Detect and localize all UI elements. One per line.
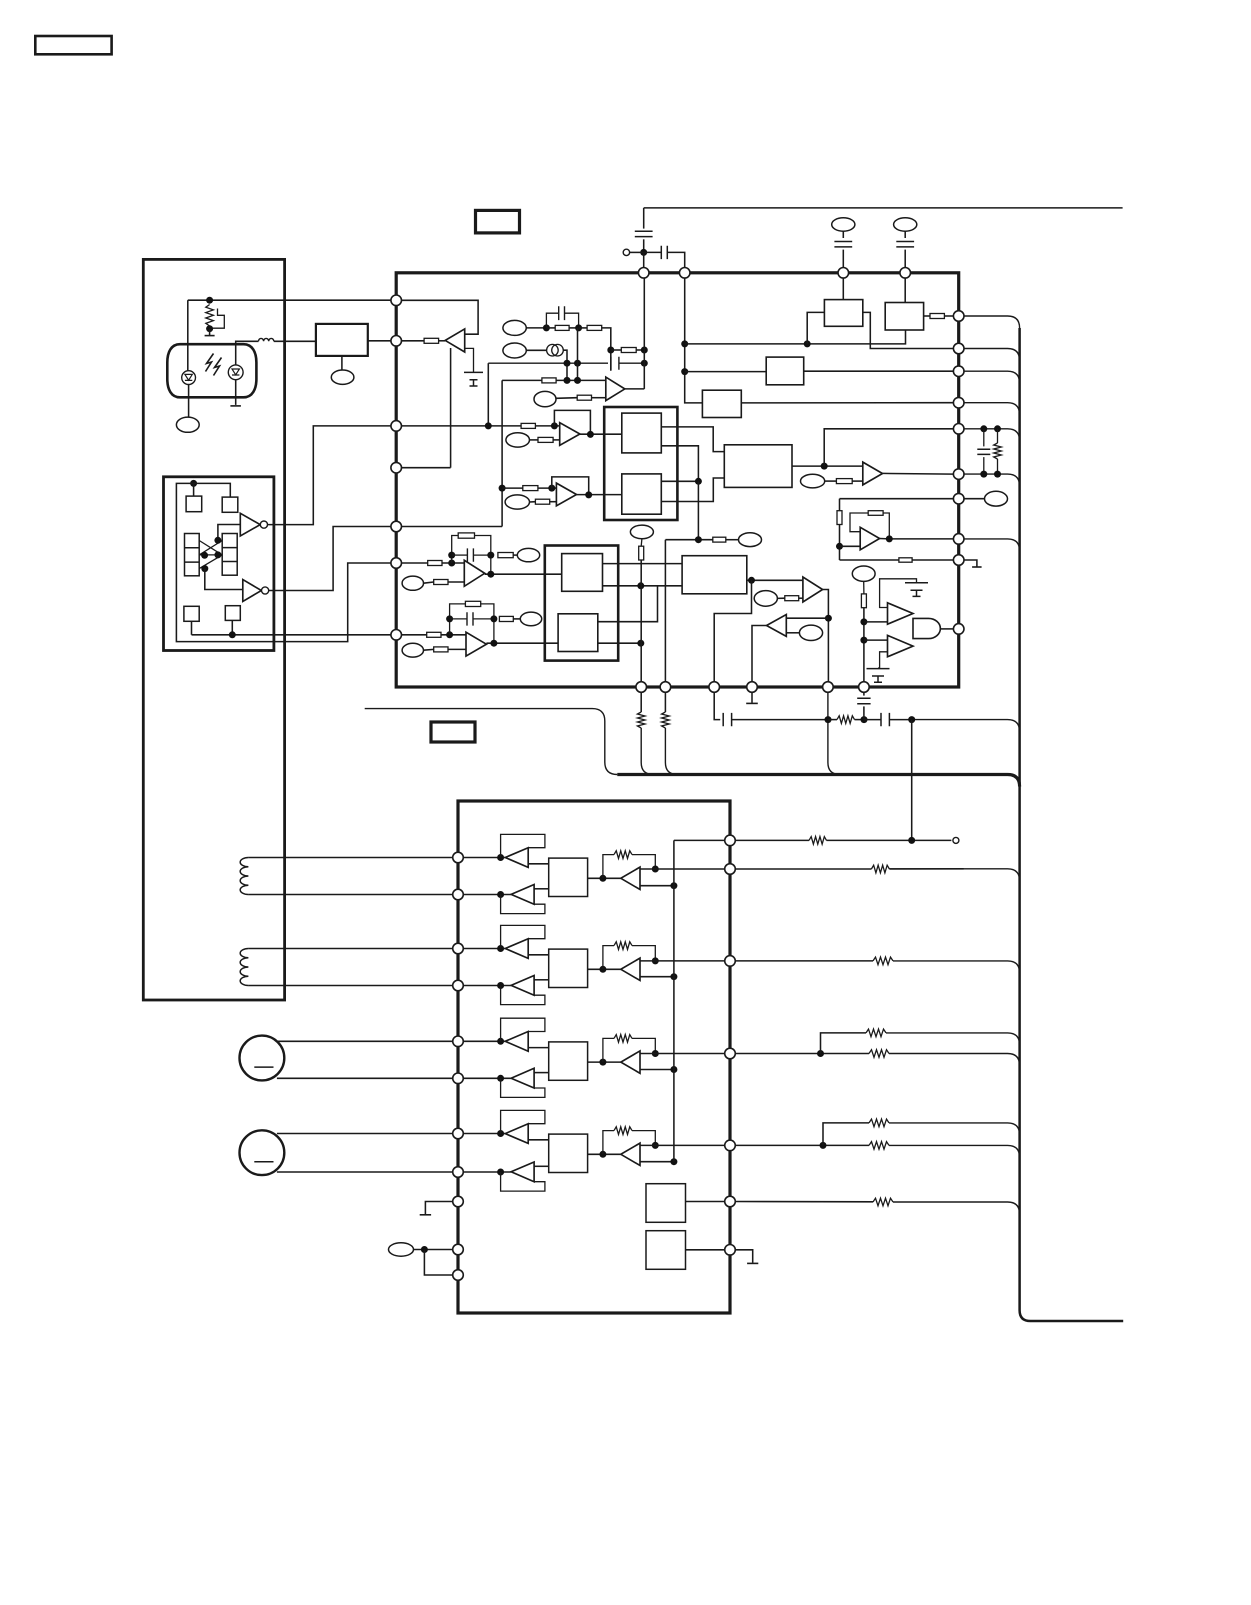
crossing wire d <box>199 554 218 556</box>
buffer spindle B2 <box>511 1068 534 1088</box>
wire col644 <box>643 278 645 389</box>
wire sled B2 out <box>534 1165 549 1167</box>
wire ref ext <box>735 839 809 841</box>
resistor R303 <box>873 957 893 965</box>
pin driver right 2 <box>725 864 736 875</box>
pin servo bottom 5 <box>823 682 834 693</box>
resistor R208 <box>538 437 553 442</box>
wire TRK out <box>747 579 803 581</box>
wire ch3 branch <box>821 1033 867 1054</box>
node tracking ref <box>670 973 677 980</box>
pad ellipse E14 <box>801 474 825 488</box>
op-amp U1a <box>445 329 465 352</box>
wire bus row p316 <box>964 316 1020 328</box>
wire Vref to pin <box>414 1249 454 1251</box>
wire focus out row <box>640 868 725 870</box>
node EQ out <box>821 463 828 470</box>
resistor R302 <box>871 865 889 873</box>
wire spindle B2 fb <box>501 1078 545 1097</box>
capacitor C201 <box>559 306 565 320</box>
wire C2 ref <box>878 652 888 668</box>
pin servo right 3 <box>953 366 964 377</box>
capacitor C201 loop right <box>565 313 579 328</box>
wire col864 <box>863 608 865 682</box>
wire spindle bridge out <box>588 1061 621 1063</box>
wire R215 out <box>513 554 517 556</box>
pin driver right 7 <box>725 1245 736 1256</box>
pin servo bottom 2 <box>660 682 671 693</box>
wire pin714 drop <box>714 692 720 720</box>
pin driver right 1 <box>725 835 736 846</box>
block driver OSC <box>646 1184 686 1223</box>
block DIV <box>702 390 741 417</box>
resistor R203 <box>587 325 602 330</box>
wire terminal <box>630 251 644 253</box>
op-amp I1 <box>464 560 484 586</box>
pin servo top 1 <box>638 268 649 279</box>
op-amp A7 <box>863 462 883 485</box>
capacitor C605 lead2 <box>983 457 985 474</box>
photodiode array box outline <box>164 477 274 651</box>
wire module bottom <box>341 356 343 370</box>
sled motor minus <box>254 1161 273 1163</box>
resistor R306 <box>869 1119 889 1127</box>
wire driver ref top <box>674 839 725 841</box>
pin servo left 2 <box>391 336 402 347</box>
wire pin467 interior <box>401 467 450 469</box>
resistor R613 <box>837 716 855 724</box>
laser beam arrow 2 <box>214 358 222 376</box>
node A3 in <box>551 422 558 429</box>
wire Vref branch <box>424 1250 453 1276</box>
capacitor C612 <box>881 713 889 726</box>
wire SH2 out a <box>598 586 658 622</box>
resistor R225 <box>868 511 883 516</box>
resistor R215 <box>498 553 513 558</box>
resistor R223 <box>785 596 799 601</box>
resistor R605 lead2 <box>997 459 999 474</box>
wire bus row drv osc <box>893 1202 1020 1214</box>
pin servo bottom 4 <box>747 682 758 693</box>
wire module to IC pin <box>368 340 392 342</box>
wire cap row <box>488 362 608 364</box>
sled motor M2 <box>240 1130 285 1175</box>
ground pin560 <box>964 560 977 567</box>
pad ellipse p499 <box>985 491 1008 506</box>
buffer tracking B1 <box>505 939 528 959</box>
wire EQ fb up <box>824 429 954 466</box>
wire A6 out <box>752 626 767 683</box>
wire LD anode drop <box>187 300 189 371</box>
node cross 3 <box>214 551 221 558</box>
crossing wire a <box>199 541 222 555</box>
wire PLL out <box>924 315 930 317</box>
resistor R204 <box>621 348 636 353</box>
wire focus in- <box>463 894 511 896</box>
node mix1 <box>607 347 614 354</box>
terminal ref test <box>953 837 959 843</box>
block SH2 <box>558 614 598 652</box>
buffer focus B1 <box>505 848 528 868</box>
wire focus coil + <box>248 857 453 859</box>
wire rings out <box>563 350 567 380</box>
wire tracking B2 out <box>534 979 549 981</box>
node sled in+ <box>497 1130 504 1137</box>
wire R201 right <box>439 340 446 342</box>
pin driver left 6 <box>453 1073 464 1084</box>
wire inductor to module <box>274 340 316 342</box>
wire E13 drop <box>640 539 643 547</box>
pin driver left 2 <box>453 889 464 900</box>
block HF2 <box>622 474 662 514</box>
wire U1a ref <box>465 348 474 372</box>
wire E5 out <box>530 501 536 503</box>
wire PD to inductor <box>236 341 259 365</box>
pad ellipse E7 <box>402 576 423 590</box>
node S4 junction <box>229 631 236 638</box>
wire bus row drv ch4a <box>889 1123 1020 1135</box>
node sled in- <box>497 1169 504 1176</box>
node col684 b <box>681 368 688 375</box>
wire TRK fb <box>714 580 751 682</box>
capacitor C603 <box>834 242 852 247</box>
pad ellipse E4 <box>506 433 530 447</box>
wire S1 stub <box>193 483 195 496</box>
wire pin526 interior <box>401 526 502 528</box>
node col644 a <box>641 347 648 354</box>
wire ch4 ext <box>735 1144 869 1146</box>
wire array top loop <box>176 483 391 641</box>
ground PD bar <box>230 405 241 407</box>
wire bus row servo rail <box>617 775 1019 787</box>
wire R208 out <box>553 439 560 441</box>
wire C603 to pin <box>842 250 844 268</box>
resistor R305 <box>869 1050 889 1058</box>
wire E9 out <box>424 648 434 651</box>
buffer sled B2 <box>511 1162 534 1182</box>
block HF1 <box>622 413 662 453</box>
wire R212 out <box>944 315 953 317</box>
resistor R611 <box>637 712 645 728</box>
node A4 in <box>548 485 555 492</box>
capacitor C605 <box>977 449 990 454</box>
wire col665 <box>664 540 666 682</box>
node spindle in+ <box>497 1038 504 1045</box>
node I1 cap r <box>487 552 494 559</box>
block tracking bridge <box>549 949 588 987</box>
pad ellipse E10 <box>754 591 777 607</box>
wire row343 <box>685 330 906 344</box>
pad ellipse E15 <box>852 566 875 581</box>
node col502 <box>499 485 506 492</box>
wire E1 out <box>526 327 546 329</box>
pin driver right 3 <box>725 956 736 967</box>
wire R210 out <box>550 501 557 503</box>
node cross 1 <box>214 537 221 544</box>
wire pin300 interior <box>401 300 478 334</box>
wire U1a fb drop <box>450 348 452 468</box>
wire M2 - <box>277 1171 453 1173</box>
wire C602 left <box>644 251 662 253</box>
power amp spindle <box>621 1051 640 1073</box>
node spindle ref <box>670 1066 677 1073</box>
wire rail feeder <box>365 709 618 775</box>
op-amp A6 <box>767 615 787 637</box>
wire focus ref in <box>640 885 674 887</box>
power amp sled <box>621 1143 640 1165</box>
ground R101 bar <box>205 335 215 337</box>
wire A4 fb <box>552 477 589 495</box>
pad ellipse E12 <box>739 533 762 547</box>
pin driver left 10 <box>453 1244 464 1255</box>
wire C604 to pin <box>904 250 906 268</box>
resistor R217 <box>427 632 441 637</box>
wire A6 in b <box>786 632 799 634</box>
wire LD cathode <box>188 385 190 418</box>
wire sled B1 fb <box>501 1110 545 1133</box>
wire A5 out <box>823 590 829 683</box>
pad ellipse E11 <box>799 625 822 640</box>
wire T2 output <box>269 527 392 591</box>
pin driver left 4 <box>453 980 464 991</box>
vref U1a <box>464 372 483 386</box>
pad ellipse filter2 <box>894 218 917 231</box>
pin servo right 2 <box>953 343 964 354</box>
bus vertical <box>1020 328 1124 1321</box>
segment S2 <box>222 497 238 512</box>
node HF junction <box>695 478 702 485</box>
wire tracking coil - <box>248 985 453 987</box>
wire focus B1 out <box>528 863 549 865</box>
wire rail drop <box>643 208 645 229</box>
pin servo bottom 6 <box>859 682 870 693</box>
resistor R308 <box>873 1198 893 1206</box>
wire ch4 branch <box>823 1123 869 1146</box>
wire focus B1 fb <box>501 834 545 857</box>
node spindle in- <box>497 1075 504 1082</box>
block spindle bridge <box>549 1042 588 1080</box>
op-amp A4 <box>556 483 576 506</box>
wire I1 fb left <box>452 536 459 564</box>
wire pin539 row <box>889 538 953 540</box>
wire pin635 row <box>401 634 466 636</box>
pad ellipse E9 <box>402 643 423 657</box>
wire spindle out row <box>640 1053 725 1055</box>
wire A6 in a <box>786 617 828 619</box>
wire I1 out <box>485 573 562 575</box>
pad ellipse E5 <box>505 495 529 509</box>
wire HF junction drop <box>697 481 699 539</box>
resistor spindle fb <box>614 1035 632 1043</box>
wire row539 <box>665 539 712 541</box>
inductor L101 <box>259 338 274 341</box>
resistor R301 <box>809 837 827 845</box>
wire I2 fb right <box>481 604 494 643</box>
resistor R207 <box>521 423 535 428</box>
wire filter2 <box>904 231 906 238</box>
wire spindle B1 fb <box>501 1018 545 1041</box>
wire A3 out <box>580 433 622 435</box>
resistor R101 body <box>206 305 214 327</box>
node E1 <box>543 324 550 331</box>
wire tracking B2 fb <box>501 986 545 1005</box>
wire sled B1 out <box>528 1139 549 1141</box>
node I2 cap l <box>446 615 453 622</box>
wire row488 <box>502 487 556 489</box>
resistor focus fb <box>614 851 632 859</box>
wire spindle B2 out <box>534 1072 549 1074</box>
resistor R307 <box>869 1142 889 1150</box>
node TRK out <box>748 577 755 584</box>
pad ellipse Vref drv <box>389 1243 414 1256</box>
wire E15 drop <box>863 581 865 593</box>
servo IC outline <box>396 273 959 687</box>
node I2 in <box>446 631 453 638</box>
capacitor C601 <box>635 231 653 236</box>
resistor R304 <box>866 1029 886 1037</box>
wire R201 left <box>401 340 424 342</box>
ground driver left <box>425 1202 453 1215</box>
wire sled out row <box>640 1144 725 1146</box>
node sled sum <box>599 1151 606 1158</box>
node array top <box>190 480 197 487</box>
pin driver left 8 <box>453 1167 464 1178</box>
capacitor C613 <box>857 698 870 703</box>
wire R216 out <box>448 581 464 583</box>
wire tracking in+ <box>463 948 505 950</box>
wire C613 to node <box>863 706 865 719</box>
op-amp A1 <box>606 377 625 401</box>
wire tracking in- <box>463 985 511 987</box>
node I2 out <box>490 640 497 647</box>
op-amp A3 <box>560 423 580 446</box>
wire R223 out <box>799 597 803 599</box>
wire pin665 to rail <box>665 728 677 775</box>
wire col577 <box>577 328 579 381</box>
wire DEMOD out <box>804 370 954 372</box>
wire sled fb up <box>603 1131 614 1155</box>
pad ellipse LD <box>176 417 199 432</box>
pin driver right 6 <box>725 1196 736 1207</box>
node R101 bottom <box>206 325 213 332</box>
node R613 out <box>861 716 868 723</box>
wire SH1 out a <box>603 563 683 565</box>
wire R204 left <box>611 349 622 351</box>
pin driver left 11 <box>453 1270 464 1281</box>
photodiode PD <box>228 365 243 380</box>
wire C2 sig <box>864 639 888 641</box>
pad ellipse filter1 <box>832 218 855 231</box>
wire pin665 drop <box>664 692 666 712</box>
wire R222 out <box>726 539 739 541</box>
pin servo right 4 <box>953 397 964 408</box>
node A5 out <box>825 615 832 622</box>
buffer sled B1 <box>505 1124 528 1144</box>
wire I2 out <box>486 642 558 644</box>
resistor R205 <box>542 378 556 383</box>
node sled ref <box>670 1158 677 1165</box>
node col644 b <box>641 360 648 367</box>
wire pin499 interior <box>840 498 954 500</box>
optical pickup block outline <box>143 259 284 1000</box>
node A8 out <box>886 535 893 542</box>
wire A4 out <box>577 494 622 496</box>
wire ch3 ext <box>735 1053 869 1055</box>
wire R202 right <box>569 327 579 329</box>
node decouple cap bot <box>980 471 987 478</box>
pad ellipse module <box>331 370 354 384</box>
resistor R101 lead <box>209 326 211 329</box>
node tracking in+ <box>497 945 504 952</box>
node decouple res bot <box>994 471 1001 478</box>
wire focus fb up <box>603 855 614 879</box>
node col488 b <box>485 422 492 429</box>
resistor R206 <box>577 395 591 400</box>
wire col502 <box>501 380 503 526</box>
wire A8 fb <box>850 513 868 532</box>
buffer spindle B1 <box>505 1032 528 1052</box>
comparator C1 <box>888 603 914 624</box>
wire C206 right <box>473 554 490 556</box>
wire spindle in+ <box>463 1040 505 1042</box>
wire VCC top rail <box>644 207 1123 209</box>
wire I1 fb right <box>475 536 491 575</box>
wire bus row p348 <box>964 349 1020 361</box>
wire focus B2 out <box>534 888 549 890</box>
node col641 a <box>637 582 644 589</box>
wire tracking coil + <box>248 948 453 950</box>
wire focus coil - <box>248 894 453 896</box>
comparator C2 <box>888 635 914 656</box>
resistor R221 <box>639 546 644 560</box>
resistor R210 <box>535 499 549 504</box>
wire T1 output <box>268 426 392 525</box>
node spindle sum <box>599 1059 606 1066</box>
node ref ext <box>908 837 915 844</box>
pin servo left 7 <box>391 630 402 641</box>
node cmp b <box>860 637 867 644</box>
pin driver left 1 <box>453 852 464 863</box>
pin driver right 4 <box>725 1048 736 1059</box>
wire E4 out <box>530 439 538 441</box>
wire osc ext <box>735 1201 873 1203</box>
node row343 <box>804 340 811 347</box>
resistor R613 lead <box>828 719 837 721</box>
wire SH2 out b <box>598 642 641 644</box>
wire pin563 row <box>401 562 464 564</box>
wire sled B2 fb <box>501 1172 545 1191</box>
node sum a <box>564 377 571 384</box>
block driver REG <box>646 1231 686 1270</box>
pin driver left 9 <box>453 1196 464 1207</box>
segment S4 <box>225 606 240 621</box>
wire A8 drop <box>839 499 841 511</box>
node decouple cap top <box>980 425 987 432</box>
wire T1 input <box>218 525 240 541</box>
wire spindle fb right <box>632 1038 655 1053</box>
node cap row a <box>564 360 571 367</box>
node A4 out <box>585 491 592 498</box>
driver IC outline <box>458 801 730 1313</box>
AND gate U2 <box>913 618 940 638</box>
node R202 out <box>575 324 582 331</box>
wire col488 <box>487 363 489 426</box>
block focus bridge <box>549 858 588 896</box>
wire HF2 out a <box>661 480 698 482</box>
resistor R216 <box>434 580 448 585</box>
pin servo bottom 1 <box>636 682 647 693</box>
ground R101 <box>209 329 211 336</box>
